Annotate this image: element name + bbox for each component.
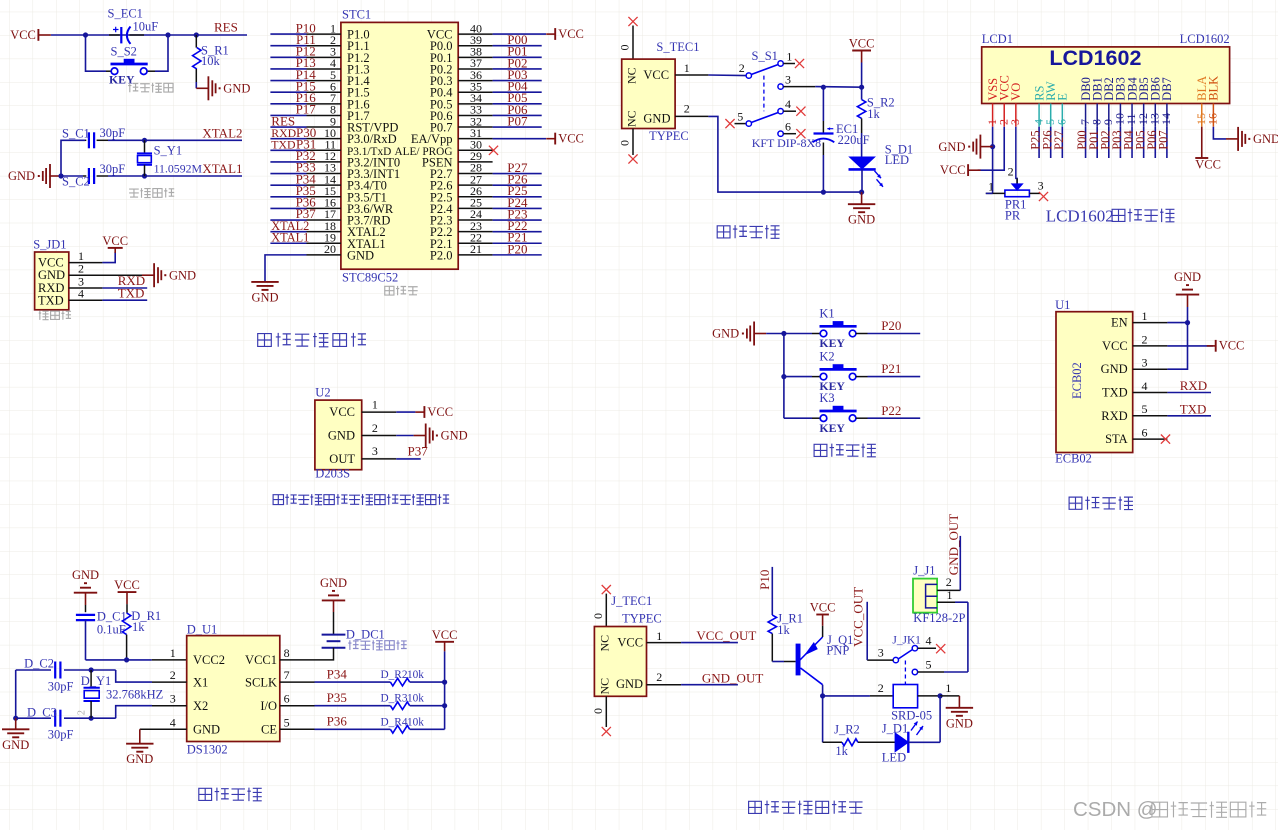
svg-text:D_C3: D_C3	[27, 706, 57, 720]
power port VCC (LCD)	[940, 163, 981, 177]
switch S_S1 contact 5	[746, 121, 751, 126]
capacitor S_C1	[89, 132, 94, 148]
wire BT gnd stem	[1187, 295, 1189, 307]
wire VCC_OUT vertical	[866, 602, 868, 660]
svg-text:TXD: TXD	[1180, 401, 1207, 416]
svg-text:5: 5	[1142, 402, 1148, 416]
LCD pin 13 stub	[1154, 104, 1156, 127]
svg-text:P2.0: P2.0	[430, 248, 453, 262]
wire MCU pin 5	[270, 80, 306, 82]
MCU pin 9 stub	[307, 126, 341, 128]
svg-text:D_Y1: D_Y1	[81, 674, 112, 688]
junction	[781, 331, 786, 336]
wire MCU pin 25	[493, 207, 542, 209]
switch S_S1 blade 1	[751, 65, 778, 75]
resistor D_R3	[390, 702, 409, 710]
U2 pin 2 stub	[362, 435, 397, 437]
MCU pin 15 stub	[307, 196, 341, 198]
svg-text:D_DC1: D_DC1	[346, 628, 385, 642]
svg-text:4: 4	[170, 715, 176, 729]
junction	[165, 32, 170, 37]
svg-text:14: 14	[1159, 113, 1173, 125]
caption 继电器控制电路	[749, 801, 863, 814]
svg-text:VCC_OUT: VCC_OUT	[851, 587, 866, 647]
wire LCD pin 9	[1108, 127, 1110, 158]
svg-text:LCD1602: LCD1602	[1046, 207, 1114, 226]
wire MCU pin 36	[493, 80, 542, 82]
svg-text:NC: NC	[625, 67, 639, 84]
svg-text:GND_OUT: GND_OUT	[946, 514, 961, 575]
MCU pin 25 stub	[458, 207, 492, 209]
MCU pin 34 stub	[458, 103, 492, 105]
J_TEC1 pin2 wire	[647, 684, 682, 686]
switch S_S1 blade 2	[751, 113, 778, 123]
MCU pin 4 stub	[307, 68, 341, 70]
svg-text:GND: GND	[712, 327, 739, 341]
potentiometer PR1 wiper wire	[1016, 178, 1018, 184]
svg-text:DB7: DB7	[1160, 77, 1174, 101]
svg-text:TYPEC: TYPEC	[622, 612, 662, 626]
svg-text:KEY: KEY	[819, 336, 845, 350]
MCU pin 10 stub	[307, 138, 341, 140]
wire U2 GND	[396, 435, 413, 437]
connector J_TEC1 body	[594, 627, 646, 697]
switch J_JK1 contact 3	[893, 657, 898, 662]
IC STC1 body	[341, 22, 458, 269]
svg-text:KEY: KEY	[109, 72, 135, 86]
capacitor D_C2 wire	[16, 669, 51, 671]
U1 pin 1 stub	[1133, 322, 1168, 324]
wire MCU pin 28	[493, 173, 542, 175]
junction	[442, 680, 447, 685]
resistor S_R1 bottom lead	[195, 69, 197, 82]
svg-text:5: 5	[926, 657, 932, 671]
DS1302 pin2 stub	[152, 681, 187, 683]
svg-text:NC: NC	[597, 635, 611, 652]
svg-text:10k: 10k	[201, 54, 221, 68]
IC DS1302 body	[187, 636, 280, 742]
svg-text:VO: VO	[1009, 83, 1023, 101]
resistor S_R1	[193, 48, 201, 69]
svg-text:1: 1	[372, 397, 378, 411]
svg-text:S_TEC1: S_TEC1	[656, 40, 699, 54]
wire D_R3 to VCC	[410, 705, 445, 707]
wire up-branch to C1 row	[61, 140, 85, 176]
ground (power circuit)	[848, 192, 875, 227]
wire MCU pin 22	[493, 242, 542, 244]
wire R1 down	[126, 635, 128, 660]
wire contact1	[783, 63, 795, 65]
no connect PR1 pin3	[1039, 192, 1048, 201]
wire LCD pin 10	[1119, 127, 1121, 158]
J_TEC1 pin1 wire	[647, 642, 682, 644]
junction	[89, 716, 94, 721]
MCU pin 6 stub	[307, 91, 341, 93]
ground (DS1302 pin4)	[126, 729, 153, 766]
svg-text:CE: CE	[261, 723, 277, 737]
wire C1 down	[85, 620, 87, 660]
wire battery to pin8	[315, 648, 334, 660]
capacitor S_EC1 leads	[109, 34, 120, 36]
LCD pin 16 stub	[1212, 104, 1214, 127]
svg-text:VCC: VCC	[102, 234, 128, 248]
wire to D_R4	[315, 728, 391, 730]
ground (reset)	[196, 76, 250, 100]
svg-text:P17: P17	[296, 102, 317, 117]
svg-text:U2: U2	[315, 385, 330, 399]
power port VCC (reset)	[10, 28, 51, 42]
wire K1 left	[784, 333, 812, 335]
power port VCC (BLA)	[1195, 158, 1221, 172]
module U1 body	[1056, 312, 1133, 453]
LCD pin 6 stub	[1061, 104, 1063, 127]
DS1302 right pin 6 stub	[280, 705, 315, 707]
MCU pin 23 stub	[458, 231, 492, 233]
svg-text:D_R3: D_R3	[381, 693, 408, 705]
svg-text:TXD: TXD	[38, 293, 64, 307]
gray caption 下载口	[39, 311, 71, 320]
PR1 pin3 wire	[1029, 192, 1040, 194]
no connect STA	[1161, 435, 1170, 444]
no connect J_TEC1 top	[602, 585, 611, 594]
MCU pin 37 stub	[458, 68, 492, 70]
svg-text:P34: P34	[327, 667, 348, 682]
wire LCD pin 12	[1143, 127, 1145, 158]
svg-text:P35: P35	[327, 690, 347, 705]
svg-text:GND: GND	[126, 752, 153, 766]
ground (crystal)	[8, 164, 62, 188]
svg-text:NC: NC	[625, 110, 639, 127]
MCU pin 13 stub	[307, 173, 341, 175]
pin 1 wire	[69, 262, 103, 264]
wire MCU pin40 to VCC	[493, 33, 546, 35]
wire R1 to base	[771, 634, 773, 662]
wire R2 to LED	[858, 741, 895, 743]
svg-text:32.768kHZ: 32.768kHZ	[106, 687, 163, 701]
svg-text:VCC: VCC	[558, 131, 584, 145]
svg-text:GND: GND	[320, 576, 347, 590]
wire key right stub	[147, 70, 155, 72]
svg-text:VCC: VCC	[1195, 158, 1221, 172]
svg-text:VCC: VCC	[1102, 339, 1128, 353]
svg-text:D203S: D203S	[315, 467, 350, 481]
svg-text:3: 3	[170, 692, 176, 706]
wire X1	[116, 670, 152, 682]
svg-text:0.1uF: 0.1uF	[97, 623, 126, 637]
wire MCU pin 19	[270, 242, 306, 244]
crystal S_Y1	[137, 153, 152, 164]
wire P10 down	[771, 567, 773, 615]
wire to D_R2	[315, 681, 391, 683]
svg-text:TXD: TXD	[271, 138, 296, 152]
MCU pin 1 stub	[307, 33, 341, 35]
wire crystal node to X1 wire	[91, 669, 116, 671]
pin 3 wire	[69, 287, 103, 289]
svg-text:U1: U1	[1055, 298, 1070, 312]
svg-text:XTAL2: XTAL2	[202, 125, 242, 140]
svg-text:GND: GND	[441, 429, 468, 443]
svg-text:30pF: 30pF	[100, 126, 126, 140]
LCD pin 9 stub	[1108, 104, 1110, 127]
no connect S_TEC1 top	[628, 17, 637, 26]
svg-text:6: 6	[1055, 119, 1069, 125]
svg-text:LED: LED	[885, 153, 909, 167]
svg-text:2: 2	[170, 668, 176, 682]
module U2 body	[315, 400, 362, 470]
svg-text:SCLK: SCLK	[245, 675, 277, 689]
wire MCU pin 32	[493, 126, 542, 128]
svg-text:2: 2	[1008, 165, 1014, 179]
wire GND_OUT vertical	[959, 536, 961, 591]
wire contact3 to VCC node	[815, 86, 861, 89]
caption 蓝牙模块	[1069, 496, 1133, 509]
svg-text:SRD-05: SRD-05	[891, 708, 932, 722]
junction	[142, 138, 147, 143]
MCU pin 22 stub	[458, 242, 492, 244]
S_TEC1 top pin wire	[632, 26, 634, 60]
svg-text:STA: STA	[1105, 432, 1128, 446]
svg-text:0: 0	[618, 45, 632, 51]
svg-text:VCC: VCC	[849, 37, 875, 51]
no connect contact4 (JK1)	[936, 644, 945, 653]
resistor S_R2	[857, 100, 865, 119]
svg-text:1: 1	[170, 646, 176, 660]
wire U1 RXD	[1167, 415, 1211, 417]
LED J_D1 arrows	[911, 722, 918, 731]
svg-text:E: E	[1056, 93, 1070, 101]
junction	[89, 667, 94, 672]
resistor D_R2	[390, 678, 409, 686]
svg-text:4: 4	[1142, 379, 1148, 393]
resistor S_R1 top lead	[195, 35, 197, 48]
svg-text:3: 3	[878, 646, 884, 660]
LCD pin 2 stub	[1003, 104, 1005, 127]
wire pin1 to switch	[708, 74, 746, 77]
svg-text:STC1: STC1	[342, 7, 371, 21]
svg-text:2: 2	[878, 681, 884, 695]
wire BLK to GND	[1213, 127, 1226, 139]
U1 pin 5 stub	[1133, 415, 1168, 417]
potentiometer PR1	[1005, 184, 1030, 197]
gray caption 按键复位	[128, 83, 173, 93]
svg-text:220uF: 220uF	[838, 133, 870, 147]
ground (relay)	[946, 696, 973, 730]
svg-text:3: 3	[372, 444, 378, 458]
wire gnd to keys	[766, 333, 784, 335]
MCU pin 38 stub	[458, 56, 492, 58]
svg-text:GND: GND	[1101, 362, 1128, 376]
svg-text:16: 16	[1206, 113, 1220, 125]
svg-text:S_JD1: S_JD1	[33, 238, 66, 252]
junction	[820, 693, 825, 698]
LCD pin 3 stub	[1015, 104, 1017, 127]
capacitor D_C3	[55, 710, 60, 727]
junction	[821, 190, 826, 195]
svg-text:GND: GND	[328, 429, 355, 443]
no connect pin30	[489, 146, 498, 155]
wire U2 VCC	[396, 411, 415, 413]
pin 4 wire	[69, 299, 103, 301]
svg-text:X1: X1	[193, 675, 208, 689]
power port VCC (S_JD1)	[102, 234, 128, 253]
key switch S_S2	[111, 59, 148, 75]
relay link dashed	[904, 661, 906, 685]
no connect S_TEC1 bottom	[628, 154, 637, 163]
ground (clock top-left)	[72, 568, 99, 593]
wire MCU pin 8	[270, 114, 306, 116]
svg-text:LED: LED	[882, 751, 906, 765]
LCD pin 8 stub	[1096, 104, 1098, 127]
MCU pin 27 stub	[458, 184, 492, 186]
wire MCU pin 6	[270, 91, 306, 93]
MCU pin 2 stub	[307, 45, 341, 47]
MCU pin 3 stub	[307, 56, 341, 58]
wire MCU pin 11	[270, 149, 306, 151]
wire contact5 stub	[735, 123, 747, 125]
junction	[859, 190, 864, 195]
wire K3 right	[856, 417, 868, 419]
no connect contact1	[795, 59, 804, 68]
MCU pin 29 stub	[458, 161, 492, 163]
wire contact5 up to J_J1	[967, 602, 969, 672]
gray caption 晶振电路	[129, 188, 174, 198]
wire BLA to VCC	[1201, 127, 1203, 158]
power port VCC (U2)	[415, 405, 453, 419]
svg-text:I/O: I/O	[260, 699, 277, 713]
svg-text:2: 2	[684, 101, 690, 115]
junction	[938, 693, 943, 698]
capacitor S_C2	[89, 168, 94, 184]
svg-text:P3.0/RxD: P3.0/RxD	[347, 132, 397, 146]
J_TEC1 bottom pin wire	[605, 696, 607, 727]
svg-text:EN: EN	[1111, 316, 1128, 330]
svg-text:STC89C52: STC89C52	[342, 271, 398, 285]
wire MCU pin 33	[493, 114, 542, 116]
wire MCU pin 39	[493, 45, 542, 47]
wire K3 left	[784, 417, 812, 419]
svg-text:1: 1	[786, 49, 792, 63]
gray label 纽扣电池座	[348, 640, 406, 650]
wire LED to relay pin1	[908, 741, 940, 743]
wire to J_R2	[823, 741, 842, 743]
power port VCC (MCU pin31)	[546, 131, 584, 145]
svg-text:2: 2	[77, 710, 88, 715]
svg-text:21: 21	[470, 242, 482, 256]
wire contact4	[783, 110, 796, 112]
svg-text:1k: 1k	[867, 107, 880, 121]
wire U1 GND up	[1167, 323, 1187, 370]
junction	[821, 85, 826, 90]
MCU pin 21 stub	[458, 254, 492, 256]
LCD pin 14 stub	[1166, 104, 1168, 127]
J_J1 inner contacts	[926, 584, 938, 608]
svg-text:P20: P20	[881, 318, 901, 333]
svg-text:J_JK1: J_JK1	[892, 635, 921, 647]
svg-text:1: 1	[684, 61, 690, 75]
wire MCU pin 10	[270, 138, 306, 140]
wire D_R2 to VCC	[410, 681, 445, 683]
LED S_D1	[850, 157, 875, 169]
wire MCU pin 35	[493, 91, 542, 93]
wire MCU pin 1	[270, 33, 306, 35]
svg-text:5: 5	[737, 109, 743, 123]
wire K2 right	[856, 376, 868, 378]
switch J_JK1 contact 5	[912, 669, 917, 674]
svg-text:LCD1602: LCD1602	[1180, 32, 1230, 46]
wire VCC bus down	[444, 651, 446, 729]
svg-text:S_Y1: S_Y1	[154, 144, 182, 158]
power port VCC (pullups)	[432, 628, 458, 652]
MCU pin 40 stub	[458, 33, 492, 35]
svg-text:3: 3	[1142, 356, 1148, 370]
svg-text:10k: 10k	[407, 693, 424, 705]
wire LCD pin 6	[1061, 127, 1063, 158]
ground (MCU)	[251, 282, 278, 305]
wire MCU pin 14	[270, 184, 306, 186]
svg-text:RXD: RXD	[1180, 378, 1207, 393]
MCU pin 17 stub	[307, 219, 341, 221]
junction	[142, 173, 147, 178]
wire MCU pin 21	[493, 254, 542, 256]
wire XTAL1 row	[108, 175, 242, 177]
wire VCC to reset network	[51, 34, 196, 36]
wire MCU pin 7	[270, 103, 306, 105]
svg-text:P10: P10	[757, 570, 772, 590]
svg-text:GND: GND	[1174, 270, 1201, 284]
svg-text:D_C2: D_C2	[24, 656, 54, 670]
svg-text:3: 3	[1008, 119, 1022, 125]
LCD pin 7 stub	[1085, 104, 1087, 127]
LCD pin 10 stub	[1119, 104, 1121, 127]
crystal D_Y1	[84, 670, 100, 718]
wire MCU pin 3	[270, 56, 306, 58]
svg-text:DS1302: DS1302	[187, 743, 228, 757]
svg-text:TYPEC: TYPEC	[649, 129, 689, 143]
LED J_D1	[895, 733, 908, 752]
no connect J_TEC1 bottom	[602, 727, 611, 736]
svg-text:P07: P07	[1157, 130, 1171, 149]
wire gnd to C1	[85, 593, 87, 605]
battery D_DC1	[322, 635, 346, 648]
capacitor S_C1 leads	[85, 139, 86, 141]
svg-text:P36: P36	[327, 714, 348, 729]
caption 时钟电路	[199, 788, 262, 801]
ground (LCD right)	[1226, 127, 1278, 151]
MCU pin 32 stub	[458, 126, 492, 128]
svg-text:S_S2: S_S2	[111, 45, 137, 59]
capacitor EC1	[813, 127, 835, 142]
svg-text:S_S1: S_S1	[752, 49, 778, 63]
svg-text:6: 6	[1142, 426, 1148, 440]
svg-text:VCC1: VCC1	[245, 653, 277, 667]
svg-text:J_TEC1: J_TEC1	[611, 594, 652, 608]
svg-text:VCC: VCC	[1219, 339, 1245, 353]
svg-text:VCC: VCC	[10, 28, 36, 42]
resistor J_R1	[768, 615, 776, 634]
svg-text:P20: P20	[507, 241, 527, 256]
wire VSS to PR1	[986, 192, 993, 194]
svg-text:VCC: VCC	[427, 405, 453, 419]
wire K2 left	[784, 376, 812, 378]
MCU pin 36 stub	[458, 80, 492, 82]
switch J_JK1 contact 4	[912, 646, 917, 651]
svg-text:GND: GND	[643, 111, 670, 125]
junction	[83, 32, 88, 37]
wire gnd to battery	[333, 600, 335, 612]
wire MCU pin31 to VCC	[493, 138, 546, 140]
wire LCD pin 11	[1131, 127, 1133, 158]
switch S_S1 contact 1	[778, 61, 783, 66]
